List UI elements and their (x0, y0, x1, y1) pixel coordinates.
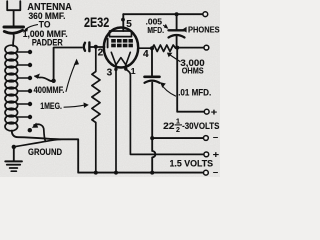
svg-text:400MMF.: 400MMF. (34, 85, 65, 95)
svg-text:MFD.: MFD. (147, 26, 164, 35)
svg-text:+: + (213, 149, 219, 159)
svg-text:OHMS: OHMS (182, 67, 205, 76)
svg-text:2E32: 2E32 (84, 15, 110, 30)
svg-text:2: 2 (98, 47, 104, 58)
svg-text:PADDER: PADDER (32, 38, 63, 48)
svg-text:+: + (211, 107, 217, 117)
svg-text:−: − (213, 133, 218, 143)
svg-text:-30VOLTS: -30VOLTS (182, 121, 220, 132)
svg-text:2: 2 (176, 127, 180, 134)
svg-text:4: 4 (143, 49, 149, 60)
svg-text:5: 5 (126, 19, 132, 30)
svg-text:−: − (213, 168, 218, 177)
svg-text:22: 22 (163, 121, 174, 132)
svg-text:3: 3 (107, 68, 113, 79)
svg-text:GROUND: GROUND (28, 147, 62, 157)
svg-text:1MEG.: 1MEG. (40, 101, 62, 111)
svg-text:TO: TO (39, 20, 51, 30)
svg-text:1: 1 (131, 66, 136, 76)
svg-text:.01 MFD.: .01 MFD. (178, 87, 211, 97)
svg-text:PHONES: PHONES (188, 25, 220, 34)
svg-text:1.5 VOLTS: 1.5 VOLTS (170, 159, 214, 169)
